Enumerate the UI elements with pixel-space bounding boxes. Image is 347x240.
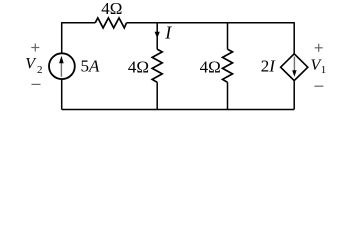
svg-text:1: 1 [321, 64, 327, 76]
svg-text:5A: 5A [81, 57, 101, 76]
svg-text:4Ω: 4Ω [101, 0, 122, 18]
svg-text:2I: 2I [261, 57, 277, 76]
svg-text:2: 2 [37, 64, 43, 76]
svg-text:I: I [164, 23, 172, 43]
svg-text:4Ω: 4Ω [128, 57, 149, 76]
svg-text:4Ω: 4Ω [200, 57, 221, 76]
svg-text:V: V [25, 56, 37, 73]
